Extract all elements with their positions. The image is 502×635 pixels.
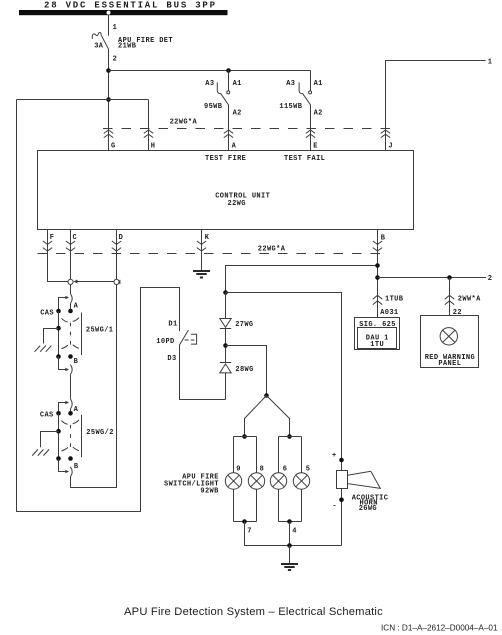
svg-text:1: 1 <box>488 59 493 67</box>
ground K earth symbol <box>193 271 210 278</box>
ground chassis symbol sensor 1 <box>35 346 52 352</box>
svg-text:TEST FAIL: TEST FAIL <box>284 155 325 163</box>
wire left branch to loop <box>17 99 109 101</box>
switch 10PD actuator dashes <box>185 339 195 341</box>
svg-text:G: G <box>111 143 116 151</box>
junction B upper <box>375 263 380 268</box>
junction main bus node <box>106 68 111 73</box>
wire lamp bottoms to ground rail <box>245 522 342 546</box>
lamp 6 <box>270 473 286 489</box>
svg-text:25WG/1: 25WG/1 <box>86 326 113 334</box>
svg-text:A: A <box>74 406 79 414</box>
wire sensor 2 left leg <box>58 413 60 458</box>
svg-text:2: 2 <box>113 56 118 64</box>
switch S1 TEST FIRE 95WB <box>217 71 229 151</box>
svg-text:B: B <box>74 358 79 366</box>
junction ground rail <box>287 543 292 548</box>
connector hook arrow B sensor 1 <box>59 357 66 370</box>
svg-text:ICN : D1–A–2612–D0004–A–01: ICN : D1–A–2612–D0004–A–01 <box>381 624 498 633</box>
wire to external pin 2 <box>378 277 487 279</box>
wire sensor1 to sensor2 <box>70 375 72 399</box>
svg-text:D1: D1 <box>168 321 177 329</box>
svg-text:-: - <box>332 503 337 511</box>
svg-text:3A: 3A <box>94 43 104 51</box>
connector chevrons E <box>306 130 315 138</box>
svg-text:CAS: CAS <box>40 412 54 420</box>
svg-text:1TU: 1TU <box>370 341 384 349</box>
connector chevrons C <box>66 241 75 251</box>
connector receptacle B sensor 2 <box>70 467 72 477</box>
connector chevrons 1TUB <box>373 295 382 304</box>
connector hook arrow A sensor 1 <box>59 298 66 312</box>
red warning panel box <box>421 316 479 368</box>
wire pin D drop <box>116 230 118 280</box>
ground chassis symbol sensor 2 <box>32 449 49 455</box>
wire top horizontal to test switches <box>109 70 311 72</box>
wire pin B drop <box>377 230 379 318</box>
wire diode string <box>225 293 227 400</box>
svg-text:6: 6 <box>283 465 288 473</box>
wire ground branch sensor 1 <box>44 329 59 344</box>
svg-text:22WG: 22WG <box>228 200 246 208</box>
svg-text:28WG: 28WG <box>235 366 253 374</box>
wire pin K drop <box>201 230 203 271</box>
cable bracket sensor 1 <box>81 313 83 356</box>
circuit breaker CB 3A <box>92 33 108 50</box>
svg-text:+: + <box>332 452 337 460</box>
acoustic horn 26WG body <box>337 471 348 489</box>
svg-text:8: 8 <box>260 465 265 473</box>
wire sensor 1 left leg <box>58 311 60 357</box>
svg-text:92WB: 92WB <box>200 488 219 496</box>
control unit box 22WG <box>38 151 414 230</box>
svg-text:115WB: 115WB <box>279 103 302 111</box>
connector chevrons D <box>112 241 121 251</box>
svg-text:A: A <box>232 143 237 151</box>
wire lamp tree right diagonal <box>267 396 290 437</box>
sensing element dashed sensor 1 <box>62 318 68 322</box>
junction horn minus <box>339 498 344 503</box>
SIG. 625 box <box>355 318 400 350</box>
wire lamp feed from diode midpoint <box>226 346 267 396</box>
connector hook arrow A sensor 2 <box>59 403 66 414</box>
junction ground tap sensor 2 <box>56 429 61 434</box>
wire C into sensor 1 <box>70 285 72 294</box>
wire 2WW*A drop <box>449 278 451 316</box>
connector chevrons H <box>144 130 153 138</box>
wire sensor return to D <box>71 285 117 488</box>
diode 28WG zener <box>220 363 231 373</box>
connector chevrons A <box>224 130 233 138</box>
junction dots B sensor 1 <box>56 354 61 359</box>
connector chevrons 2WW*A <box>445 295 454 304</box>
svg-text:A1: A1 <box>233 80 242 88</box>
switch 10PD actuator bracket <box>191 334 197 344</box>
node APU FIRE DET 21WB label <box>118 37 173 50</box>
svg-text:CAS: CAS <box>40 309 54 317</box>
svg-text:PANEL: PANEL <box>438 360 461 368</box>
svg-text:22WG*A: 22WG*A <box>258 245 286 253</box>
node ACOUSTIC HORN 26WG label <box>352 494 389 512</box>
svg-text:2: 2 <box>488 275 493 283</box>
wire ground branch sensor 2 <box>41 432 59 448</box>
svg-text:A2: A2 <box>314 110 323 118</box>
svg-text:E: E <box>313 143 318 151</box>
connector receptacle A sensor 1 <box>70 294 72 304</box>
dashed disconnect line upper 22WG*A <box>103 128 393 130</box>
svg-text:9: 9 <box>236 465 241 473</box>
junction second bus node <box>106 97 111 102</box>
junction lamp pair 2 bottom <box>287 519 292 524</box>
lamp branch pair 2 frame <box>279 437 302 522</box>
junction lamp pair 1 bottom <box>242 519 247 524</box>
wire external pin 1 to J <box>386 61 486 151</box>
svg-text:4: 4 <box>292 527 297 535</box>
svg-text:A2: A2 <box>233 110 242 118</box>
connector circle on D wire <box>114 279 120 284</box>
wire pin F drop <box>48 230 68 282</box>
svg-text:28 VDC ESSENTIAL BUS 3PP: 28 VDC ESSENTIAL BUS 3PP <box>44 1 217 11</box>
connector chevrons K <box>197 241 206 251</box>
junction lamp pair 2 top <box>287 434 292 439</box>
wire branch to pin H <box>109 100 149 151</box>
svg-text:K: K <box>205 234 210 242</box>
svg-text:2WW*A: 2WW*A <box>458 296 481 304</box>
wire breaker to control unit pin G <box>108 49 110 150</box>
svg-text:10PD: 10PD <box>156 338 174 346</box>
lamp 8 <box>248 473 264 489</box>
svg-text:1: 1 <box>113 24 118 32</box>
connector chevrons G <box>104 130 113 138</box>
junction lamp pair 1 top <box>242 434 247 439</box>
svg-text:F: F <box>50 234 55 242</box>
node APU FIRE SWITCH/LIGHT 92WB label <box>164 473 219 495</box>
dashed disconnect line lower 22WG*A <box>38 253 388 255</box>
connector chevrons B <box>373 241 382 251</box>
lamp 5 <box>293 473 309 489</box>
wire horn minus down <box>341 489 343 546</box>
svg-text:5: 5 <box>306 465 311 473</box>
junction lamp tree <box>264 393 269 398</box>
lamp red warning <box>440 328 457 345</box>
acoustic horn bell <box>348 471 381 488</box>
svg-text:APU Fire Detection System – El: APU Fire Detection System – Electrical S… <box>124 606 383 618</box>
wire pin C drop <box>70 230 72 280</box>
sensing element dashed sensor 2 <box>62 421 68 425</box>
wire lamp tree left diagonal <box>245 396 267 437</box>
connector receptacle A sensor 2 <box>70 399 72 409</box>
svg-text:A3: A3 <box>205 80 214 88</box>
junction 2WW*A tap <box>447 275 452 280</box>
connector receptacle B sensor 1 <box>70 365 72 375</box>
svg-text:1TUB: 1TUB <box>385 296 404 304</box>
svg-text:D3: D3 <box>167 355 176 363</box>
cable bracket sensor 2 <box>81 415 83 458</box>
svg-text:27WG: 27WG <box>235 321 253 329</box>
junction at switch S1 <box>226 68 231 73</box>
wire horn feed <box>226 293 342 472</box>
node CONTROL UNIT 22WG label <box>215 193 270 209</box>
junction dots CAS sensor 2 <box>56 411 61 416</box>
junction between diodes <box>223 343 228 348</box>
svg-text:B: B <box>74 463 79 471</box>
connector hook arrow B sensor 2 <box>59 459 66 472</box>
junction diode top <box>223 290 228 295</box>
lamp branch pair 1 frame <box>234 437 257 522</box>
junction ground tap sensor 1 <box>56 326 61 331</box>
junction B lower <box>375 275 380 280</box>
junction dots B sensor 2 <box>56 456 61 461</box>
svg-text:21WB: 21WB <box>118 42 137 50</box>
svg-text:TEST FIRE: TEST FIRE <box>205 155 246 163</box>
svg-text:A1: A1 <box>314 80 323 88</box>
switch S2 TEST FAIL 115WB <box>299 71 312 151</box>
wire loop feed left and bottom <box>17 100 180 512</box>
connector chevrons F <box>43 241 52 251</box>
junction horn plus <box>339 458 344 463</box>
sensor CAS 25WG/1 <box>35 285 114 375</box>
connector chevrons J <box>381 130 390 138</box>
node RED WARNING PANEL label <box>425 354 475 368</box>
svg-text:22WG*A: 22WG*A <box>170 118 198 126</box>
ground lamp earth symbol <box>281 564 298 570</box>
svg-text:26WG: 26WG <box>359 505 377 513</box>
DAU 1 1TU inner box <box>358 328 397 349</box>
wire bus to breaker <box>108 15 110 36</box>
svg-text:95WB: 95WB <box>204 103 223 111</box>
svg-text:25WG/2: 25WG/2 <box>86 429 113 437</box>
svg-text:A3: A3 <box>286 80 295 88</box>
svg-text:A031: A031 <box>380 309 398 317</box>
lamp 9 <box>225 473 241 489</box>
bus bar 3PP <box>19 10 228 15</box>
diode 27WG <box>220 319 231 329</box>
wire ground stem <box>289 546 291 564</box>
wire 10PD lower stub to diode bottom <box>180 345 226 400</box>
connector plug arrow into C circle <box>73 280 114 284</box>
wire B node horizontal to diode string <box>226 266 378 293</box>
svg-text:H: H <box>151 143 156 151</box>
connector circle on C wire <box>68 279 73 284</box>
svg-text:7: 7 <box>247 527 252 535</box>
wire receptacle to node A sensor 1 <box>70 304 72 311</box>
svg-text:A: A <box>74 302 79 310</box>
switch 10PD blade <box>180 330 189 345</box>
svg-text:J: J <box>388 143 393 151</box>
sensor CAS 25WG/2 <box>32 375 114 477</box>
junction dots CAS sensor 1 <box>56 309 61 314</box>
